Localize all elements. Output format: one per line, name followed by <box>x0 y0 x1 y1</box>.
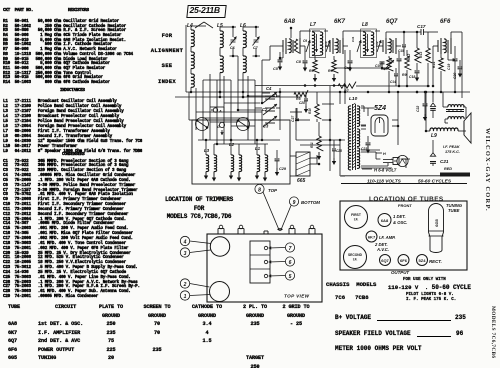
wire harness jog c <box>231 125 255 127</box>
wire L4 top to gang <box>195 22 204 28</box>
output transformer primary <box>448 105 464 107</box>
wire rectifier output <box>397 92 399 120</box>
svg-text:C3: C3 <box>263 124 269 129</box>
IF can L8 shield <box>361 29 377 58</box>
coil L4 section 2 <box>191 52 194 69</box>
wire trimmer C6 lead <box>232 48 234 56</box>
svg-text:R12: R12 <box>407 54 411 60</box>
harness horizontal a <box>196 111 262 113</box>
resistor R14 <box>440 54 442 58</box>
wire junction verticals <box>388 71 390 92</box>
capacitor C13 <box>349 50 351 60</box>
svg-text:RECT.: RECT. <box>429 259 442 264</box>
svg-text:A.V.C.: A.V.C. <box>376 247 389 252</box>
L8 tuning arrows <box>367 34 369 52</box>
svg-text:665: 665 <box>297 178 306 184</box>
FOR ALIGNMENT SEE INDEX <box>150 28 184 89</box>
svg-text:L8: L8 <box>362 22 368 28</box>
power transformer L10 HV secondary <box>357 106 360 126</box>
wire gang to switch <box>248 95 265 97</box>
svg-text:6A8: 6A8 <box>284 19 296 25</box>
svg-text:2: 2 <box>183 282 187 288</box>
svg-text:3: 3 <box>184 251 187 257</box>
25-211B box <box>186 5 226 18</box>
svg-text:C12: C12 <box>375 41 379 47</box>
L7 tuning arrows <box>316 34 318 52</box>
tuning gang section C2 <box>265 107 275 109</box>
callout 5 <box>285 271 294 280</box>
tube 6K7 <box>329 40 331 52</box>
svg-text:1 DET.: 1 DET. <box>393 214 406 219</box>
svg-text:C4: C4 <box>266 86 272 91</box>
svg-text:L2: L2 <box>229 142 235 147</box>
cathode bus wire <box>175 96 300 98</box>
B+ bus wire <box>186 91 470 93</box>
callout 9 bottom <box>289 197 298 206</box>
capacitor C25 line bypass <box>333 140 335 148</box>
svg-text:TOP VIEW: TOP VIEW <box>284 294 310 299</box>
antenna jack A <box>213 108 217 112</box>
trimmer bank box <box>250 241 270 283</box>
svg-text:C5: C5 <box>273 67 279 71</box>
svg-text:C11: C11 <box>351 36 355 42</box>
transformer secondary leads <box>361 105 364 107</box>
svg-text:I.F.: I.F. <box>353 258 358 262</box>
wire heater bus <box>361 149 380 151</box>
svg-text:8: 8 <box>258 187 261 193</box>
power transformer core hatch <box>353 103 356 105</box>
wire harness vertical 8 <box>254 80 256 126</box>
wire 6K7 plate <box>342 31 344 38</box>
capacitor C21 <box>432 140 434 153</box>
wire harness into box 2 <box>223 130 225 144</box>
wire 6Q7 grid top <box>385 32 387 38</box>
trimmer C9 <box>306 40 310 52</box>
trimmer screw 7 <box>264 246 267 249</box>
wire harness horizontal y80 <box>203 79 231 81</box>
svg-text:BOTTOM: BOTTOM <box>301 200 320 205</box>
svg-text:6Q7: 6Q7 <box>386 19 398 25</box>
speaker cone <box>464 113 471 143</box>
IF transformer L7 primary <box>312 32 315 55</box>
svg-text:C19: C19 <box>447 64 451 70</box>
chassis outline top view <box>207 234 322 302</box>
harness horizontal c <box>185 25 187 92</box>
oscillator coil L3 <box>206 155 209 172</box>
capacitor C24 <box>398 52 400 58</box>
IF transformer L8 secondary <box>371 32 374 55</box>
svg-text:FIRST: FIRST <box>351 213 362 217</box>
wire left power drop <box>344 86 346 104</box>
svg-text:1: 1 <box>184 294 187 300</box>
bandswitch wafer 2 <box>237 118 250 131</box>
tube 6A8 <box>282 40 284 52</box>
svg-text:C18: C18 <box>409 75 415 79</box>
svg-text:C21: C21 <box>440 159 449 164</box>
coil L5 primary <box>220 31 223 48</box>
svg-text:5Z4: 5Z4 <box>374 105 386 112</box>
svg-text:C1: C1 <box>272 93 278 98</box>
resistor R9 <box>405 56 412 70</box>
callout 8 top <box>255 184 264 193</box>
bandswitch wafer 1 <box>196 118 209 131</box>
svg-text:C9: C9 <box>303 39 307 43</box>
svg-text:C14: C14 <box>390 80 396 84</box>
wire heater runs <box>361 151 376 153</box>
capacitor C28 <box>305 92 307 98</box>
wire harness vertical 5 <box>223 76 225 112</box>
trimmer C10 <box>326 40 330 52</box>
svg-text:R13: R13 <box>419 52 423 58</box>
svg-text:R3: R3 <box>309 69 314 73</box>
sub antenna strip <box>440 173 470 177</box>
svg-text:R10: R10 <box>308 108 312 114</box>
tube 6F6 <box>437 40 439 52</box>
oscillator shield box <box>192 120 290 184</box>
filter capacitor C23 <box>367 136 369 142</box>
svg-text:6F6: 6F6 <box>400 258 408 263</box>
coil L6 secondary <box>243 56 246 73</box>
svg-text:175 K.C.: 175 K.C. <box>445 150 460 154</box>
svg-text:RED: RED <box>444 167 452 171</box>
wire 665 to box <box>310 163 319 165</box>
svg-text:5: 5 <box>289 274 292 280</box>
trimmer C7 <box>254 39 259 41</box>
screen bus wire segment <box>370 85 430 87</box>
callout arrows to chassis <box>263 192 280 231</box>
wire harness vertical 9 <box>237 56 239 110</box>
oscillator coil L1 <box>257 155 260 172</box>
trimmer C6 <box>231 39 236 41</box>
svg-text:C27: C27 <box>291 115 295 122</box>
wire L6 top <box>243 26 259 28</box>
power line wires <box>339 140 341 176</box>
tube 6Q7 socket <box>380 255 391 266</box>
capacitor C5 <box>279 52 281 60</box>
wire L6 bottom lead <box>242 80 244 97</box>
tuning eye 6G5 connection <box>296 152 310 176</box>
svg-text:C25: C25 <box>336 149 342 153</box>
wire harness vertical 7 <box>247 76 249 118</box>
wire harness vertical 3 <box>209 74 211 122</box>
left parts list: resistors <box>3 9 89 18</box>
wire harness vertical 2 <box>202 80 204 118</box>
svg-text:& OSC.: & OSC. <box>393 220 407 225</box>
svg-text:L3: L3 <box>204 148 210 153</box>
wire 6F6 plate to output transformer <box>450 32 452 38</box>
wire top bus 6Q7 6F6 <box>396 28 421 30</box>
wire harness vertical 11 <box>188 92 190 120</box>
resistor R6 <box>333 56 335 60</box>
wire box to bus <box>290 129 296 131</box>
trimmer screw 6 <box>264 260 267 263</box>
gang condenser section circle 2 <box>210 282 230 302</box>
svg-text:A: A <box>218 110 222 114</box>
small socket bump <box>263 231 265 234</box>
trimmer screw 5 <box>264 274 267 277</box>
wire field coil feed <box>425 92 427 127</box>
svg-text:6G5: 6G5 <box>434 218 439 226</box>
resistor R3 <box>314 56 316 60</box>
svg-text:C2: C2 <box>262 107 268 112</box>
tube 6K7 socket <box>366 231 377 242</box>
capacitor C18 <box>416 63 418 70</box>
svg-text:4: 4 <box>183 239 187 245</box>
wire harness vertical 4 <box>216 80 218 107</box>
callout 7 <box>285 243 294 252</box>
heater label H 6-8 volt <box>362 168 372 170</box>
svg-text:9: 9 <box>293 200 296 206</box>
capacitor C8 <box>304 46 306 60</box>
callout 2 <box>180 279 189 288</box>
first IF can circle <box>345 206 368 229</box>
coil L4 section 1 <box>191 30 194 47</box>
callout 3 <box>180 248 189 257</box>
second IF can circle <box>344 246 367 269</box>
svg-text:L7: L7 <box>310 22 316 28</box>
electrolytic capacitor C23b <box>432 92 434 102</box>
IF transformer L8 primary <box>363 32 366 55</box>
tuning gang section C1 <box>265 95 275 97</box>
svg-text:C16: C16 <box>375 64 381 68</box>
capacitor C16 <box>380 61 385 63</box>
svg-text:L1: L1 <box>255 146 261 151</box>
wire harness vertical 1 <box>195 88 197 112</box>
resistor R7 <box>338 82 356 89</box>
bus wires mid right <box>296 139 345 141</box>
switch contact G <box>219 122 224 127</box>
wire transformer to 5Z4 <box>361 107 374 109</box>
wire output transformer leads <box>443 106 448 108</box>
vertical texts right edge <box>484 128 491 212</box>
svg-text:6K7: 6K7 <box>368 235 376 240</box>
coil L4 section 3 <box>191 74 194 87</box>
wire harness jog a <box>210 121 238 123</box>
svg-text:6: 6 <box>289 260 292 266</box>
wire IF strip y68 <box>334 67 389 69</box>
svg-text:L10: L10 <box>349 96 358 102</box>
wire harness into box 3 <box>254 131 256 144</box>
svg-text:R9: R9 <box>402 73 407 77</box>
wire stubs right of box <box>290 111 302 113</box>
svg-text:FRONT: FRONT <box>398 203 412 208</box>
svg-text:G: G <box>217 125 220 129</box>
bottom right block <box>326 282 376 287</box>
output transformer secondary <box>448 117 464 119</box>
output transformer core <box>446 109 464 111</box>
svg-text:I.F. PEAK: I.F. PEAK <box>443 145 460 149</box>
svg-text:C29: C29 <box>279 167 287 171</box>
volume control R8 arrow <box>384 60 394 70</box>
wire 6g5 grid stub <box>317 91 322 93</box>
resistor R11 <box>318 122 320 136</box>
svg-text:6Q7: 6Q7 <box>381 258 389 263</box>
wire 6A8 grid lead <box>290 28 292 38</box>
power line wire upper <box>341 175 470 177</box>
tube location box <box>340 201 467 270</box>
pilot lamp socket <box>393 158 399 165</box>
svg-text:I.F. AMP.: I.F. AMP. <box>379 235 396 240</box>
padder capacitor C29 <box>276 150 278 158</box>
svg-text:6K7: 6K7 <box>334 19 346 25</box>
power transformer L10 primary winding <box>348 106 351 170</box>
tube 6Q7 <box>382 40 384 52</box>
tube socket bumps on chassis rear <box>217 229 219 235</box>
svg-text:C15: C15 <box>398 49 404 53</box>
wire harness jog b <box>217 106 224 108</box>
wire harness into box 1 <box>202 118 204 140</box>
svg-text:C22: C22 <box>416 106 420 112</box>
wire mid right verticals <box>329 86 331 140</box>
wire 6F6 screen <box>447 53 449 60</box>
volume/tone resistor R13 <box>427 32 429 48</box>
svg-text:SECOND: SECOND <box>348 253 363 257</box>
harness horizontal b <box>210 106 217 108</box>
diode load resistor R8 <box>388 56 390 58</box>
gang frame wire <box>279 88 281 130</box>
svg-text:C10: C10 <box>324 41 328 47</box>
IF can L7 shield <box>310 29 326 58</box>
svg-text:C8: C8 <box>296 60 302 64</box>
tube 5Z4 socket <box>417 255 428 266</box>
junction dots extra <box>232 55 235 58</box>
trimmer C12 <box>377 40 381 52</box>
svg-text:C17: C17 <box>417 24 426 29</box>
svg-text:H: H <box>383 152 386 156</box>
rectifier tube 5Z4 <box>371 115 388 136</box>
coil L5 secondary <box>220 56 223 73</box>
callout 4 <box>180 236 189 245</box>
IF transformer L7 secondary <box>320 32 323 55</box>
wire trimmer C7 lead <box>255 48 257 56</box>
field coil L9 <box>430 128 458 131</box>
wire L5 bottom lead <box>219 80 221 97</box>
svg-text:I.F.: I.F. <box>354 218 359 222</box>
wire 6A8 cathode <box>282 52 284 58</box>
wire harness vertical 10 <box>261 60 263 103</box>
wire 6A8 plate to L7 <box>299 31 301 38</box>
callout 1 <box>180 291 189 300</box>
power transformer L10 core <box>352 104 354 170</box>
svg-text:6A8: 6A8 <box>381 218 389 223</box>
tuning gang section C3 <box>265 119 275 121</box>
capacitor C14 <box>395 68 397 73</box>
wire L5 top <box>220 26 236 28</box>
svg-text:L9: L9 <box>431 133 437 139</box>
titles <box>140 196 258 222</box>
capacitor C15 <box>403 32 405 44</box>
gang condenser section circle 1 <box>210 237 229 256</box>
tuning tube 6G5 outline <box>429 204 444 253</box>
wire inside oscillator box <box>198 139 280 141</box>
wire harness vertical 6 <box>230 80 232 126</box>
callout 6 <box>285 257 294 266</box>
bottom voltage table <box>8 303 20 363</box>
tube 6A8 socket <box>378 214 391 227</box>
svg-text:7: 7 <box>289 246 292 252</box>
wire speaker sec <box>444 119 446 123</box>
svg-text:TOP: TOP <box>268 188 277 193</box>
power transformer L10 heater winding <box>357 148 360 168</box>
electrolytic capacitor C22 <box>424 92 426 103</box>
capacitor C20 <box>459 60 461 66</box>
svg-text:6F6: 6F6 <box>440 19 451 25</box>
trimmer C11 <box>357 40 361 52</box>
svg-text:C28: C28 <box>299 101 305 105</box>
coil L6 primary <box>243 31 246 48</box>
resistor R5 <box>294 90 308 97</box>
tube 6F6 socket <box>398 255 409 266</box>
svg-text:TUBE: TUBE <box>448 208 460 213</box>
svg-text:5Z4: 5Z4 <box>419 258 427 263</box>
resistor R10 <box>316 92 318 104</box>
oscillator coil L2 <box>231 155 234 172</box>
pilot lamp <box>397 155 408 166</box>
resistor R12 <box>416 32 418 48</box>
capacitor C19 <box>454 46 456 58</box>
power transformer L10 rectifier filament winding <box>357 129 360 147</box>
AVC bus wire <box>255 85 345 87</box>
svg-text:OUTPUT: OUTPUT <box>391 270 409 275</box>
